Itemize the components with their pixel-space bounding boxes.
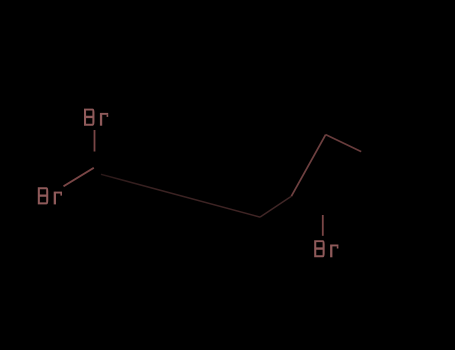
bond chain long [101,174,260,217]
bond steep [291,135,325,197]
bond C1-Br(top) [94,130,96,152]
atom label Br left [38,187,62,204]
bond chain up [260,197,291,218]
atom label Br bottom [314,240,338,257]
bond methyl [326,135,362,152]
atom label Br top [84,109,108,126]
bond C1-Br(left) [64,168,94,187]
bond C-Br(bottom) [322,215,324,236]
